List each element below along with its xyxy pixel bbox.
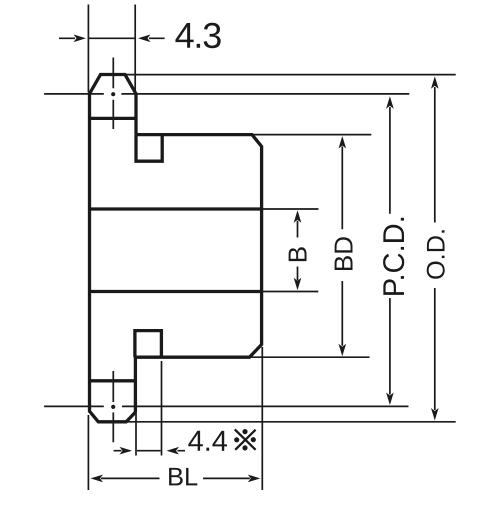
BD top extension	[253, 134, 372, 136]
arrow 4.3 left	[74, 35, 87, 43]
BL dimension line	[101, 477, 250, 479]
reference mark	[235, 429, 256, 449]
bore top line	[90, 207, 262, 210]
bottom tooth centerline vertical	[112, 371, 114, 442]
extension line 4.3 left	[87, 5, 89, 93]
top pitch line / P.C.D. top extension	[44, 93, 409, 95]
4.4 right extension	[161, 361, 163, 456]
svg-text:B: B	[283, 246, 313, 263]
sprocket left face	[90, 93, 136, 422]
bottom pitch line / P.C.D. bottom extension	[44, 405, 408, 407]
hub outline	[135, 135, 261, 413]
B dimension line	[297, 221, 299, 280]
top tooth root line	[90, 117, 137, 120]
svg-text:BL: BL	[167, 463, 198, 491]
BL left extension	[87, 415, 89, 490]
arrow P.C.D. bottom	[386, 393, 394, 406]
BD bottom extension	[251, 356, 370, 358]
arrow O.D. top	[431, 76, 439, 89]
O.D. bottom extension	[127, 421, 456, 423]
top tooth centerline vertical	[112, 58, 114, 130]
svg-text:P.C.D.: P.C.D.	[378, 215, 411, 297]
bottom tooth root line	[90, 379, 136, 382]
BD dimension line	[341, 147, 343, 346]
4.4 left extension	[135, 411, 137, 456]
svg-text:O.D.: O.D.	[423, 228, 451, 280]
P.C.D. dimension line	[389, 107, 391, 395]
B top extension	[262, 208, 319, 210]
arrow 4.4 right	[167, 447, 180, 455]
set screw hole top	[136, 135, 162, 162]
extension line 4.3 right	[134, 5, 136, 92]
arrow B bottom	[294, 278, 302, 291]
4.4 dimension line	[114, 450, 185, 452]
arrow 4.4 left	[120, 447, 133, 455]
O.D. top extension	[126, 74, 456, 76]
svg-text:4.4: 4.4	[188, 426, 228, 458]
bore bottom line	[90, 290, 262, 293]
arrow BD top	[339, 136, 347, 149]
bottom tooth center dot	[111, 405, 115, 409]
top tooth center dot	[111, 92, 115, 96]
svg-text:BD: BD	[328, 236, 358, 272]
arrow 4.3 right	[138, 35, 151, 43]
arrow BL right	[248, 475, 260, 483]
svg-text:4.3: 4.3	[175, 15, 222, 56]
arrow P.C.D. top	[386, 96, 394, 109]
4.3 dimension line left	[59, 37, 165, 39]
arrow O.D. bottom	[431, 408, 439, 421]
arrow B top	[294, 210, 302, 223]
O.D. dimension line	[434, 87, 436, 410]
sprocket top tooth profile	[90, 75, 137, 94]
set screw hole bottom	[135, 331, 162, 358]
sprocket tooth right side / hub step top	[134, 93, 137, 135]
arrow BD bottom	[339, 344, 347, 357]
BL right extension	[261, 347, 263, 490]
B bottom extension	[262, 291, 318, 293]
arrow BL left	[91, 475, 104, 483]
